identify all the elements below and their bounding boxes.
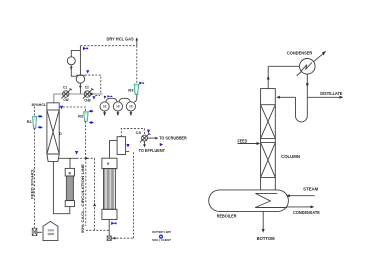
wire CW/CHB header (gray)	[54, 94, 103, 103]
wire vessel right port	[126, 150, 130, 152]
svg-text:BATTERY LIMIT: BATTERY LIMIT	[152, 231, 171, 234]
column D head line	[47, 109, 59, 111]
wire column head to R2 (dashed)	[59, 107, 85, 112]
down arrow on outlet	[306, 83, 309, 87]
blue arrow at R3	[139, 82, 144, 85]
blue arrow right of T1	[107, 95, 112, 97]
drop arrow below T1	[104, 111, 106, 112]
wire pump P1 to tank	[37, 231, 42, 233]
column packing X upper	[261, 105, 276, 139]
blue flow arrow (column top)	[60, 106, 63, 110]
svg-text:TO EFFLUENT: TO EFFLUENT	[139, 148, 166, 153]
wire column bottoms loop	[53, 161, 69, 213]
condenser C2	[83, 88, 94, 98]
svg-text:R1: R1	[27, 120, 32, 124]
arrow on P2 outlet	[114, 237, 117, 240]
drop arrow below T2	[117, 111, 119, 112]
wire separator bottom	[79, 83, 81, 94]
svg-text:BOTTOM: BOTTOM	[257, 236, 275, 241]
wire R3 to trap T3	[134, 95, 137, 103]
wire R2 down (dashed)	[85, 122, 87, 159]
blue arrow near C3	[147, 130, 150, 134]
condenser exchanger	[297, 51, 326, 76]
wire vessel to E	[110, 141, 118, 159]
separator pot	[76, 75, 84, 83]
drop arrow below T3	[130, 111, 132, 112]
svg-text:R2: R2	[78, 115, 83, 119]
svg-text:FEED: FEED	[238, 138, 248, 143]
wire circulation branch dashed	[77, 157, 95, 159]
svg-text:DRY HCL GAS: DRY HCL GAS	[107, 37, 134, 42]
wire condenser inlet	[268, 65, 299, 67]
blue flow arrow (vapor line)	[86, 70, 89, 73]
reboiler R top cap	[65, 168, 74, 176]
column skirt into drum	[261, 189, 276, 191]
wire reflux into column	[280, 96, 296, 98]
blue arrow right of vessel	[126, 144, 129, 148]
svg-text:FEED 30%HCL: FEED 30%HCL	[31, 167, 35, 198]
distillation column shell	[261, 89, 276, 190]
column packing X lower	[261, 143, 276, 178]
svg-text:DISTILLATE: DISTILLATE	[320, 91, 342, 96]
separator top plate	[76, 74, 85, 76]
svg-text:CONDENSATE: CONDENSATE	[293, 210, 320, 215]
wire column overhead riser	[267, 66, 269, 88]
wire vessel top to C3 dashed	[121, 128, 144, 136]
column D packing X	[47, 110, 59, 154]
trap T2	[113, 102, 122, 111]
wire dry gas down to R3 dashed	[136, 46, 138, 84]
wire dashed corner into traps	[95, 95, 100, 97]
exchanger E bottom cap	[102, 209, 117, 219]
reboiler R tube body	[66, 176, 73, 201]
wire feed	[238, 143, 257, 145]
wire P2 to vessel riser dashed	[117, 151, 134, 238]
svg-text:C3: C3	[136, 131, 141, 135]
wire gas riser	[79, 46, 81, 75]
blue arrow at E outlet	[111, 222, 116, 225]
battery limit legend	[152, 231, 171, 242]
wire CaCl2 riser dashed	[94, 158, 96, 230]
blue arrows at R1	[37, 115, 42, 118]
column section lines	[261, 105, 276, 178]
svg-text:R3: R3	[128, 88, 133, 92]
tank label lines	[48, 229, 54, 231]
rotameter R1	[33, 117, 37, 129]
wire K1 top to riser	[71, 50, 80, 56]
blue flow arrow above outlet	[75, 151, 78, 155]
wire CaCl2 left leg dashed	[86, 158, 109, 230]
wire K1 bottom to separator	[71, 65, 76, 76]
column D shell	[47, 103, 59, 162]
wire distillate	[307, 96, 340, 98]
steam coil	[255, 193, 287, 207]
vent up arrow	[136, 40, 138, 46]
blue flow arrow below CHB	[92, 96, 95, 99]
svg-text:CHB: CHB	[84, 99, 91, 103]
wire condenser outlet + U seal	[296, 74, 308, 122]
reboiler drum	[209, 190, 289, 212]
trap T3	[126, 102, 135, 111]
wire C3 to scrubber	[148, 137, 156, 139]
wire E bottom outlet	[108, 220, 110, 236]
valve C3	[140, 133, 151, 142]
bridge T2-T3	[119, 98, 131, 102]
rotameter R2	[84, 112, 89, 122]
svg-text:CONDENSER: CONDENSER	[287, 51, 313, 56]
wire bottoms	[262, 211, 264, 229]
wire column outlet to reboiler R	[59, 158, 77, 168]
knock-out pot K1	[67, 57, 75, 65]
svg-text:COLUMN: COLUMN	[281, 154, 300, 159]
svg-text:C1: C1	[63, 85, 67, 89]
reboiler R bottom cap	[65, 201, 74, 207]
bridge T1-T2	[106, 98, 118, 102]
up arrow on riser	[267, 76, 270, 80]
blue flow arrow (gas header)	[83, 47, 88, 51]
rotameter R3	[134, 84, 139, 95]
exchanger E tube body	[104, 169, 116, 210]
svg-text:D: D	[59, 132, 62, 136]
up arrow on riser	[93, 203, 96, 207]
exchanger E top cap	[102, 158, 117, 168]
flow arrow below separator	[79, 86, 82, 90]
svg-text:TO SCRUBBER: TO SCRUBBER	[159, 135, 187, 140]
arrow on branch	[85, 157, 88, 160]
wire dry HCl gas dashed header	[80, 45, 136, 47]
feed pump P1 (bowtie)	[32, 228, 37, 235]
svg-text:STEAM: STEAM	[303, 186, 319, 191]
wire C3 to effluent	[144, 141, 146, 145]
vessel seal pot	[117, 137, 126, 155]
svg-text:CW: CW	[63, 98, 69, 102]
trap T1	[100, 102, 109, 111]
HCl storage tank	[43, 221, 58, 240]
wire P2 outlet	[111, 237, 114, 239]
svg-text:C2: C2	[85, 85, 89, 89]
condenser C1	[61, 88, 72, 98]
svg-text:REBOILER: REBOILER	[217, 213, 238, 218]
circulation pump P2 (bowtie)	[107, 236, 111, 241]
wire condensate outlet	[287, 206, 311, 208]
wire separator vapor to pumps (dashed)	[85, 75, 101, 94]
svg-text:50% CACL₂ CIRCULATION LINE: 50% CACL₂ CIRCULATION LINE	[81, 163, 85, 233]
wire steam inlet	[290, 195, 315, 197]
wire HCl feed dashed	[34, 107, 36, 228]
black down arrow into T1	[104, 96, 107, 99]
blue arrow at effluent	[160, 143, 163, 146]
svg-text:30%HCL: 30%HCL	[31, 102, 46, 107]
svg-text:SOIL | CLIENT: SOIL | CLIENT	[152, 239, 171, 242]
arrow on CHB header	[91, 93, 94, 96]
blue arrows at R2	[88, 110, 93, 113]
flow arrow below K1	[70, 67, 73, 71]
